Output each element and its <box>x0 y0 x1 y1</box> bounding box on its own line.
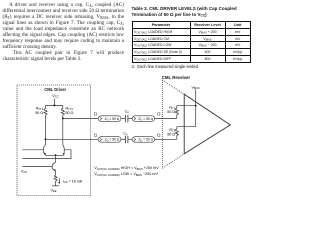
wire top to receiver <box>155 117 177 119</box>
svg-text:ZO = 50 Ω: ZO = 50 Ω <box>105 117 120 122</box>
svg-text:VOUT(AC LOADED) HIGH = VBIAS +: VOUT(AC LOADED) HIGH = VBIAS +200 mV <box>94 166 159 171</box>
pad receiver bottom <box>158 134 160 136</box>
svg-text:VCS: VCS <box>21 170 27 175</box>
wire emitters to Q3 <box>55 155 57 162</box>
svg-text:50 Ω: 50 Ω <box>66 111 74 115</box>
receiver dashed edge top diagonal <box>162 80 184 94</box>
table title <box>132 6 251 18</box>
node VBIAS junction <box>195 105 197 107</box>
wire bottom mid2 <box>128 138 132 140</box>
svg-text:ZO = 50 Ω: ZO = 50 Ω <box>138 138 153 143</box>
wire bottom to receiver <box>155 138 177 140</box>
ground VEE rail <box>52 185 59 187</box>
svg-text:CML Driver: CML Driver <box>44 87 66 92</box>
node output Qbar <box>45 138 47 140</box>
wire VBIAS vertical <box>195 90 197 127</box>
svg-text:ZO = 50 Ω: ZO = 50 Ω <box>105 138 120 143</box>
wire top mid1 <box>121 117 125 119</box>
driver dashed box <box>17 85 91 196</box>
wire VCC stem <box>53 99 55 106</box>
node VCC junction <box>53 104 55 106</box>
svg-text:VEE: VEE <box>51 189 57 194</box>
node output Q <box>62 117 64 119</box>
resistor RT2 <box>175 127 178 140</box>
wire bottom mid1 <box>121 138 125 140</box>
transistor Q3 <box>52 162 55 173</box>
svg-text:VBIAS: VBIAS <box>192 85 200 90</box>
wire Q2 collector drop <box>62 118 64 144</box>
wire emitter bus <box>45 154 63 156</box>
resistor REE <box>54 173 57 186</box>
wire top mid2 <box>128 117 132 119</box>
pad driver top <box>94 113 96 115</box>
pad receiver top <box>158 113 160 115</box>
svg-text:VCC: VCC <box>52 94 58 99</box>
resistor RT1 <box>175 106 178 119</box>
resistor RTT1 <box>44 105 47 139</box>
table 3 <box>132 21 252 63</box>
tline Zo top-right <box>132 116 154 122</box>
transistor Q1 <box>43 145 45 156</box>
svg-text:50 Ω: 50 Ω <box>35 111 43 115</box>
pad driver bottom <box>94 134 96 136</box>
tline Zo bottom-left <box>98 137 121 143</box>
wire Q1 collector <box>45 139 47 145</box>
capacitor CA top <box>126 115 128 122</box>
svg-text:50 Ω: 50 Ω <box>167 133 175 137</box>
svg-text:CA: CA <box>123 132 127 137</box>
resistor RTT2 <box>61 105 64 118</box>
tline Zo top-left <box>98 116 121 122</box>
wire VCC rail <box>46 104 63 106</box>
wire base Q1 <box>22 149 43 151</box>
wire base Q3 / VCS <box>22 166 52 168</box>
svg-text:VOUT(AC LOADED) LOW = VBIAS −2: VOUT(AC LOADED) LOW = VBIAS −200 mV <box>94 172 158 177</box>
svg-text:CML Receiver: CML Receiver <box>162 75 191 80</box>
intro paragraph <box>3 2 125 62</box>
svg-text:ZO = 50 Ω: ZO = 50 Ω <box>138 117 153 122</box>
wire base Q2 route <box>22 150 71 159</box>
table footnote <box>132 64 200 69</box>
current arrow ICS <box>58 178 60 183</box>
tline Zo bottom-right <box>132 137 154 143</box>
transistor Q2 <box>63 145 64 156</box>
wire output bottom <box>46 138 99 140</box>
receiver dashed edge bottom diagonal <box>162 154 184 169</box>
op-amp U1 triangle <box>184 94 230 154</box>
node emitters <box>55 154 57 156</box>
receiver dashed edge vertical <box>161 80 163 168</box>
wire RT2 top <box>177 126 196 128</box>
capacitor CA bottom <box>126 136 128 143</box>
wire RT1 top <box>177 105 196 107</box>
svg-text:CA: CA <box>125 110 129 115</box>
svg-text:ICS = 16 mA: ICS = 16 mA <box>63 179 83 184</box>
svg-text:50 Ω: 50 Ω <box>167 110 175 114</box>
wire output top <box>63 117 98 119</box>
